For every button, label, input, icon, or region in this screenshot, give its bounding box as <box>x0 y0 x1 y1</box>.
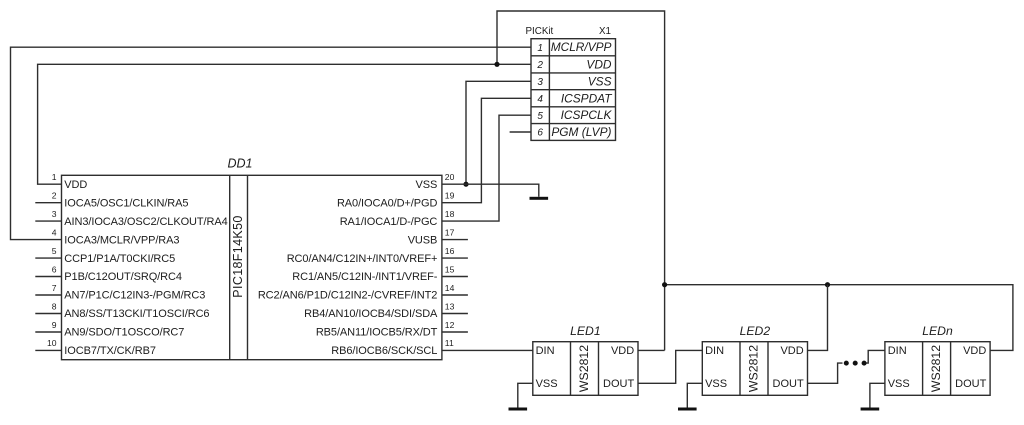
svg-text:MCLR/VPP: MCLR/VPP <box>551 40 612 54</box>
svg-text:17: 17 <box>445 227 455 237</box>
svg-text:1: 1 <box>537 43 543 54</box>
svg-text:VSS: VSS <box>536 378 558 390</box>
svg-text:DOUT: DOUT <box>603 378 634 390</box>
svg-text:VDD: VDD <box>611 345 634 357</box>
svg-text:DIN: DIN <box>888 345 907 357</box>
svg-text:2: 2 <box>536 60 543 71</box>
svg-text:IOCB7/TX/CK/RB7: IOCB7/TX/CK/RB7 <box>64 345 156 357</box>
svg-text:5: 5 <box>537 111 543 122</box>
svg-text:VDD: VDD <box>586 57 612 71</box>
svg-text:ICSPDAT: ICSPDAT <box>561 91 612 105</box>
svg-text:WS2812: WS2812 <box>747 345 761 392</box>
svg-text:8: 8 <box>52 301 57 311</box>
svg-text:WS2812: WS2812 <box>577 345 591 392</box>
svg-text:14: 14 <box>445 283 455 293</box>
svg-text:PICKit: PICKit <box>526 26 554 37</box>
svg-text:CCP1/P1A/T0CKI/RC5: CCP1/P1A/T0CKI/RC5 <box>64 253 175 265</box>
svg-text:RC2/AN6/P1D/C12IN2-/CVREF/INT2: RC2/AN6/P1D/C12IN2-/CVREF/INT2 <box>258 290 437 302</box>
svg-text:7: 7 <box>52 283 57 293</box>
svg-text:13: 13 <box>445 301 455 311</box>
svg-text:DD1: DD1 <box>228 157 253 171</box>
svg-text:PGM (LVP): PGM (LVP) <box>551 125 611 139</box>
svg-text:6: 6 <box>537 128 543 139</box>
svg-text:LED2: LED2 <box>740 324 771 338</box>
svg-text:20: 20 <box>445 172 455 182</box>
svg-text:2: 2 <box>52 191 57 201</box>
svg-text:DOUT: DOUT <box>773 378 804 390</box>
svg-text:6: 6 <box>52 264 57 274</box>
svg-text:RC0/AN4/C12IN+/INT0/VREF+: RC0/AN4/C12IN+/INT0/VREF+ <box>287 253 438 265</box>
svg-text:VDD: VDD <box>963 345 986 357</box>
svg-text:16: 16 <box>445 246 455 256</box>
svg-text:1: 1 <box>52 172 57 182</box>
svg-text:VSS: VSS <box>588 74 612 88</box>
svg-text:11: 11 <box>445 338 454 348</box>
svg-text:RC1/AN5/C12IN-/INT1/VREF-: RC1/AN5/C12IN-/INT1/VREF- <box>292 271 437 283</box>
svg-text:DIN: DIN <box>705 345 724 357</box>
svg-text:4: 4 <box>537 94 543 105</box>
svg-text:AIN3/IOCA3/OSC2/CLKOUT/RA4: AIN3/IOCA3/OSC2/CLKOUT/RA4 <box>64 216 227 228</box>
svg-text:LEDn: LEDn <box>922 324 953 338</box>
svg-text:VUSB: VUSB <box>408 234 438 246</box>
svg-text:9: 9 <box>52 320 57 330</box>
svg-text:RA1/IOCA1/D-/PGC: RA1/IOCA1/D-/PGC <box>340 216 438 228</box>
svg-text:IOCA5/OSC1/CLKIN/RA5: IOCA5/OSC1/CLKIN/RA5 <box>64 197 188 209</box>
svg-text:X1: X1 <box>599 26 611 37</box>
svg-text:DOUT: DOUT <box>955 378 986 390</box>
svg-text:DIN: DIN <box>536 345 555 357</box>
svg-text:12: 12 <box>445 320 455 330</box>
svg-text:4: 4 <box>52 227 57 237</box>
svg-text:VSS: VSS <box>705 378 727 390</box>
svg-text:IOCA3/MCLR/VPP/RA3: IOCA3/MCLR/VPP/RA3 <box>64 234 179 246</box>
svg-text:AN7/P1C/C12IN3-/PGM/RC3: AN7/P1C/C12IN3-/PGM/RC3 <box>64 290 205 302</box>
svg-text:3: 3 <box>52 209 57 219</box>
svg-text:RB6/IOCB6/SCK/SCL: RB6/IOCB6/SCK/SCL <box>331 345 437 357</box>
svg-text:AN8/SS/T13CKI/T1OSCI/RC6: AN8/SS/T13CKI/T1OSCI/RC6 <box>64 308 209 320</box>
svg-text:RB5/AN11/IOCB5/RX/DT: RB5/AN11/IOCB5/RX/DT <box>316 327 438 339</box>
svg-text:VSS: VSS <box>888 378 910 390</box>
svg-text:18: 18 <box>445 209 455 219</box>
svg-text:15: 15 <box>445 264 455 274</box>
svg-text:LED1: LED1 <box>570 324 601 338</box>
svg-text:5: 5 <box>52 246 57 256</box>
svg-text:3: 3 <box>537 77 543 88</box>
svg-text:VDD: VDD <box>780 345 803 357</box>
svg-text:P1B/C12OUT/SRQ/RC4: P1B/C12OUT/SRQ/RC4 <box>64 271 182 283</box>
svg-text:10: 10 <box>47 338 57 348</box>
svg-text:ICSPCLK: ICSPCLK <box>561 108 613 122</box>
svg-text:AN9/SDO/T1OSCO/RC7: AN9/SDO/T1OSCO/RC7 <box>64 327 184 339</box>
svg-text:WS2812: WS2812 <box>929 345 943 392</box>
svg-text:19: 19 <box>445 191 455 201</box>
svg-text:VSS: VSS <box>416 179 438 191</box>
svg-text:RB4/AN10/IOCB4/SDI/SDA: RB4/AN10/IOCB4/SDI/SDA <box>304 308 438 320</box>
svg-text:VDD: VDD <box>64 179 87 191</box>
svg-text:PIC18F14K50: PIC18F14K50 <box>231 215 245 297</box>
svg-text:RA0/IOCA0/D+/PGD: RA0/IOCA0/D+/PGD <box>337 197 437 209</box>
